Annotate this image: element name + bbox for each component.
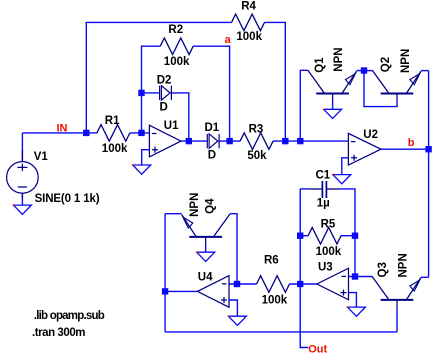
transistor Q2 (372, 70, 421, 101)
wire V1 top lead (21, 133, 23, 162)
node R3-Q1 junction dot (297, 138, 303, 144)
svg-text:R4: R4 (241, 1, 256, 13)
svg-text:D: D (208, 150, 216, 162)
wire left rail Q4 emitter down to bottom (164, 214, 166, 332)
wire R3 right to U2 minus (273, 140, 348, 142)
wire R5 right lead (341, 235, 355, 237)
resistor R6 (257, 276, 290, 293)
svg-text:NPN: NPN (333, 47, 345, 71)
svg-text:R5: R5 (321, 218, 336, 230)
wire Q1 base to ground (332, 101, 334, 109)
transistor Q4 mirrored (182, 214, 231, 245)
wire U3 minus row to Q3 collector (349, 276, 373, 278)
wire top rail to R4 (86, 21, 232, 23)
svg-text:Q1: Q1 (314, 57, 326, 73)
wire U3 plus to ground (349, 293, 357, 308)
svg-text:R2: R2 (168, 24, 183, 36)
ground U4 (228, 315, 247, 325)
resistor R3 (240, 133, 273, 150)
wire U1 minus junction up to R2 row (142, 46, 161, 133)
node U1 minus junction dot (138, 130, 144, 136)
wire Q1 collector rail (300, 70, 308, 141)
svg-text:V1: V1 (34, 151, 49, 163)
svg-text:Q3: Q3 (377, 262, 389, 277)
node R5 left junction dot (297, 233, 303, 239)
svg-text:SINE(0 1 1k): SINE(0 1 1k) (35, 193, 100, 205)
svg-text:D: D (160, 102, 168, 114)
wire Q3 base down to bottom rail (396, 308, 398, 332)
svg-text:1µ: 1µ (317, 197, 330, 209)
wire U2 output to node b (380, 148, 429, 150)
ground V1 (13, 204, 32, 214)
svg-text:D1: D1 (205, 122, 220, 134)
svg-text:100k: 100k (262, 295, 288, 307)
wire D2 anode (142, 92, 160, 94)
ground U3 (347, 306, 366, 316)
transistor Q1 (308, 70, 357, 101)
node U1 output junction dot (186, 138, 192, 144)
node U3 minus junction dot (352, 273, 358, 279)
wire D2 cathode down to U1 output (171, 93, 189, 141)
node b junction dot (425, 146, 431, 152)
svg-text:R3: R3 (249, 123, 264, 135)
svg-text:NPN: NPN (397, 253, 409, 277)
ground U2 (332, 174, 351, 184)
wire Q3 emitter to right rail (421, 276, 429, 278)
node D2 anode junction dot (138, 90, 144, 96)
svg-text:U1: U1 (164, 120, 179, 132)
wire R5 left lead (300, 235, 308, 237)
svg-text:100k: 100k (316, 246, 342, 258)
svg-text:Q2: Q2 (380, 57, 392, 72)
wire Q2 base loop to Q1 emitter junction (364, 71, 397, 107)
ground U1 (132, 164, 151, 174)
wire Q2 emitter to right rail (421, 70, 429, 72)
capacitor C1 (309, 181, 341, 198)
node U4 minus junction dot (234, 281, 240, 287)
wire U3 output to R6 (289, 283, 317, 285)
wire C1 right to right rail (340, 189, 355, 277)
svg-text:U3: U3 (318, 261, 333, 273)
svg-text:b: b (408, 137, 415, 149)
svg-text:50k: 50k (247, 150, 267, 162)
wire U4 plus to ground (229, 300, 237, 316)
op-amp U3 mirrored (317, 268, 349, 300)
wire bottom rail (165, 331, 397, 333)
svg-text:IN: IN (57, 122, 68, 134)
node Q1 emitter junction dot (361, 67, 367, 73)
wire U1 output to D1 (181, 140, 207, 142)
node U4 output junction dot (162, 288, 168, 294)
ground Q1 (323, 109, 342, 119)
wire IN junction up to top rail (85, 22, 87, 132)
wire Q4 base to ground (205, 245, 207, 253)
wire U1 plus to ground (142, 150, 150, 165)
wire Q4 emitter lead (165, 213, 182, 215)
wire IN row from V1 to R1 (22, 132, 97, 134)
wire R2 right down to node a (193, 46, 230, 141)
wire R6 left to U4 minus (229, 283, 257, 285)
diode D2 (160, 86, 172, 100)
svg-text:a: a (225, 34, 232, 46)
svg-text:U2: U2 (363, 129, 378, 141)
ground Q4 (196, 251, 215, 261)
node IN junction dot (83, 130, 89, 136)
node U3 output junction dot (297, 281, 303, 287)
node R5 right junction dot (352, 233, 358, 239)
wire D1 cathode to R3 (219, 140, 240, 142)
op-amp U4 mirrored (197, 276, 229, 308)
svg-text:Out: Out (308, 343, 327, 355)
svg-text:C1: C1 (316, 170, 331, 182)
svg-text:NPN: NPN (189, 193, 201, 217)
wire U2 plus to ground (342, 158, 349, 175)
svg-text:R1: R1 (105, 115, 120, 127)
resistor R2 (160, 38, 193, 55)
wire C1 left rail down to Out flag (300, 189, 308, 348)
svg-text:NPN: NPN (400, 49, 412, 73)
wire right rail b (428, 71, 430, 278)
wire R4 right and down to node a row (264, 22, 285, 141)
op-amp U2 (348, 133, 381, 165)
diode D1 (207, 134, 219, 148)
wire Q1 emitter to Q2 collector (357, 70, 373, 72)
wire Q4 collector down to R6 row (230, 214, 237, 284)
wire V1 bottom lead to ground (21, 193, 23, 205)
svg-text:D2: D2 (157, 74, 172, 86)
transistor Q3 (372, 277, 421, 309)
svg-text:.lib opamp.sub: .lib opamp.sub (34, 310, 105, 322)
node R3-R4 junction dot (282, 138, 288, 144)
resistor R5 (308, 227, 341, 244)
node a junction dot (226, 138, 232, 144)
svg-text:U4: U4 (198, 271, 213, 283)
resistor R1 (97, 125, 130, 142)
svg-text:100k: 100k (236, 31, 262, 43)
resistor R4 (232, 14, 265, 31)
op-amp U1 (149, 125, 181, 157)
svg-text:100k: 100k (164, 56, 190, 68)
wire C1 left lead (300, 188, 308, 190)
wire U4 output to left rail (165, 290, 197, 292)
svg-text:Q4: Q4 (205, 198, 217, 214)
svg-text:100k: 100k (102, 143, 128, 155)
voltage source V1 (7, 150, 39, 198)
wire R1 right to U1 minus (130, 132, 150, 134)
svg-text:.tran 300m: .tran 300m (32, 327, 86, 339)
svg-text:R6: R6 (264, 255, 279, 267)
